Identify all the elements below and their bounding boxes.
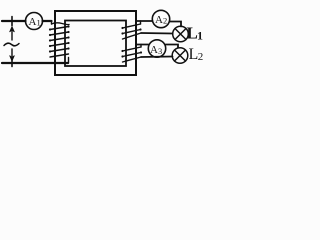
svg-text:A: A: [150, 44, 158, 56]
label L2: [189, 46, 204, 63]
wire secondary1 to ammeter A2: [137, 20, 153, 22]
ammeter A1: [26, 13, 43, 30]
secondary winding 1: [121, 21, 141, 39]
wire secondary2 lower to lamp L2: [141, 56, 173, 59]
label L1: [187, 24, 204, 43]
secondary winding 2: [121, 45, 142, 63]
wire secondary2 to ammeter A3: [137, 44, 149, 46]
primary winding: [49, 21, 70, 63]
svg-text:A: A: [155, 14, 163, 26]
ammeter A2: [152, 10, 169, 27]
svg-text:A: A: [29, 16, 37, 28]
wire ammeter A1 to primary: [43, 20, 52, 22]
wire secondary1 lower to lamp L1: [141, 32, 173, 35]
terminal tick bottom: [11, 60, 13, 67]
terminal tick top: [11, 17, 13, 26]
wire A2 to lamp L1: [170, 22, 182, 27]
AC source ~: [4, 43, 19, 46]
svg-text:3: 3: [158, 46, 162, 56]
svg-text:2: 2: [198, 51, 204, 63]
svg-text:2: 2: [163, 16, 167, 26]
svg-text:1: 1: [197, 29, 203, 43]
wire bottom-left: [2, 62, 68, 64]
arrow up terminal: [10, 27, 15, 41]
arrow down terminal: [10, 49, 15, 61]
ammeter A3: [148, 40, 165, 57]
wire A3 to lamp L2: [166, 45, 179, 48]
lamp L2: [172, 48, 188, 64]
transformer core outer: [55, 11, 136, 75]
transformer core inner: [65, 21, 126, 67]
svg-text:1: 1: [37, 18, 41, 28]
wire top-left: [2, 20, 26, 22]
lamp L1: [173, 26, 189, 42]
